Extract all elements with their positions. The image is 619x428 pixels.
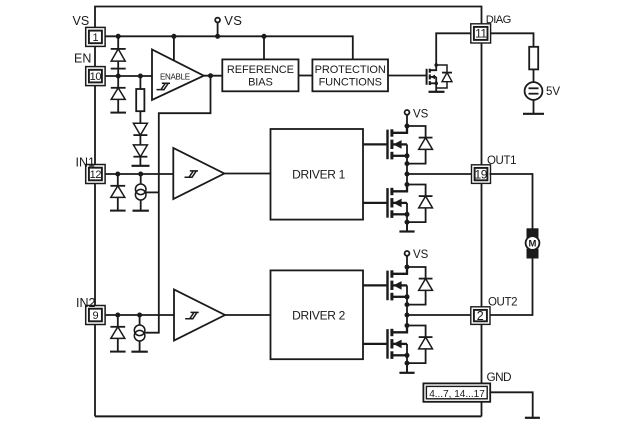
node dot IN1 / esd diode [115,172,120,177]
svg-text:ENABLE: ENABLE [160,73,190,82]
REFERENCE BIAS block [222,59,298,91]
wire OUT1 rail to Q2 [406,174,408,185]
svg-text:EN: EN [74,52,91,66]
node dot OUT2 rail [405,313,410,318]
VS terminal bridge 1 [405,110,410,115]
svg-text:VS: VS [73,14,90,28]
chip outline top edge [95,7,482,28]
chip outline right edge segments [481,43,483,416]
clamp diode EN-to-VS [111,36,126,76]
pin OUT1 box 19 [472,165,491,184]
ENABLE comparator U1 [152,50,204,101]
svg-text:M: M [529,239,537,250]
wire T1 to driver1 [224,173,270,175]
esd diode EN to gnd [110,76,126,113]
svg-text:PROTECTION: PROTECTION [315,64,386,76]
DRIVER 1 block [271,129,364,220]
diode D4 (series with R1) [133,123,147,135]
pin DIAG box 11 [471,24,491,43]
svg-text:GND: GND [487,370,511,384]
node dot OUT1 rail [405,172,410,177]
current source I1 [140,174,142,184]
high-side MOSFET Q3 with body diode [363,265,433,316]
diag fet body diode [436,65,447,88]
node dot VS rail / VS terminal [215,34,220,39]
node dot enable output [208,73,213,78]
svg-text:2: 2 [477,309,484,323]
EN input wire [105,75,152,77]
svg-text:VS: VS [413,108,429,120]
VS supply rail from pin 1 [105,36,353,59]
hysteresis glyph T1 [185,171,199,177]
pin EN box 10 [86,67,105,86]
node dot IN2 / esd diode [115,313,120,318]
node dot VS rail / ref bias feed [262,34,267,39]
pin GND box 4...7,14...17 [423,383,490,401]
motor M [527,228,539,238]
svg-text:FUNCTIONS: FUNCTIONS [319,76,382,88]
wire protection to diag fet gate [388,75,427,77]
IN2 input wire [105,314,174,316]
wire I1 control spur [146,191,159,193]
pull-up resistor R2 [529,47,538,70]
svg-text:11: 11 [475,26,487,40]
low-side MOSFET Q4 with body diode [363,323,433,374]
pulldown resistor R1 [139,76,141,89]
ground tick under Q2 [406,222,408,231]
OUT2 wire to pin 2 [407,314,471,316]
wire enable to current sources [145,76,210,333]
svg-text:19: 19 [475,168,488,182]
ground tick diag fet [429,91,445,93]
schmitt trigger T1 [173,148,224,199]
hysteresis glyph T2 [185,312,199,318]
pin VS box 1 [86,27,105,46]
node dot IN1 / current source [138,172,143,177]
esd diode IN2 to gnd [110,315,126,352]
wire OUT2 rail to Q4 [406,315,408,326]
IN1 input wire [105,173,173,175]
chip outline bottom edge [95,415,482,417]
GND external wire [490,392,533,418]
high-side MOSFET Q1 with body diode [363,124,433,175]
hysteresis glyph enable [157,83,171,89]
OUT1 external wire to motor [490,174,533,229]
5V source V1 [525,82,543,100]
svg-text:IN1: IN1 [76,156,96,170]
svg-text:DIAG: DIAG [486,14,511,26]
wire enable output [204,75,223,77]
svg-text:OUT1: OUT1 [487,155,516,167]
OUT2 external wire to motor [490,259,533,316]
ground tick under D5 [132,165,150,167]
diag open-drain MOSFET Q5 [427,63,452,92]
node dot IN2 / current source [137,313,142,318]
pin OUT2 box 2 [471,307,490,325]
ground tick external [525,417,540,419]
low-side MOSFET Q2 with body diode [363,182,433,233]
svg-text:OUT2: OUT2 [488,297,517,309]
svg-text:VS: VS [224,13,242,28]
wire 5V source to ground [533,100,535,114]
svg-text:DRIVER 2: DRIVER 2 [292,308,346,322]
ground tick 5V source [523,113,544,115]
ground tick under Q4 [406,363,408,373]
VS terminal [217,22,219,36]
pin IN1 box 12 [86,165,105,184]
svg-text:BIAS: BIAS [248,76,273,88]
svg-text:IN2: IN2 [76,296,96,310]
PROTECTION FUNCTIONS block [312,59,388,91]
wire ref bias feed [263,36,265,59]
svg-text:12: 12 [90,169,102,181]
node dot EN / esd diode [116,74,121,79]
schmitt trigger T2 [174,290,225,341]
node dot VS rail / enable supply [171,34,176,39]
diode D5 (series with R1) [133,145,147,157]
OUT1 wire to pin 19 [407,173,471,175]
DIAG wire from pin 11 to fet drain [436,33,471,65]
node dot VS rail / clamp diode [116,34,121,39]
DIAG pull-up wire [491,33,534,47]
wire enable supply stub [173,36,175,60]
wire T2 to driver2 [225,314,271,316]
current source I2 [139,315,141,325]
pin IN2 box 9 [86,306,105,325]
esd diode IN1 to gnd [110,174,126,211]
VS terminal bridge 2 [405,251,410,256]
wire ref bias to protection [299,75,313,77]
svg-text:REFERENCE: REFERENCE [227,64,294,76]
DRIVER 2 block [271,270,364,359]
svg-text:10: 10 [90,71,102,83]
svg-text:VS: VS [413,249,429,261]
node dot EN / pulldown resistor [138,74,143,79]
chip outline left edge segments [94,46,96,416]
svg-text:9: 9 [92,310,98,322]
svg-text:5V: 5V [546,86,560,98]
svg-text:4...7, 14...17: 4...7, 14...17 [429,389,485,400]
svg-text:DRIVER 1: DRIVER 1 [292,167,346,181]
svg-text:1: 1 [92,32,98,44]
